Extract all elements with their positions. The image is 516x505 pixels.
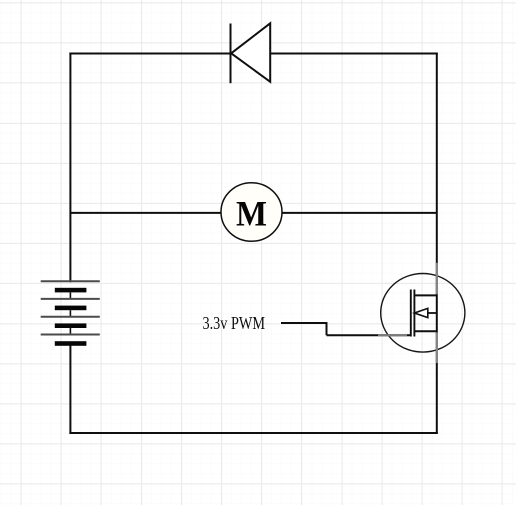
battery BT1 connector 2 — [69, 310, 71, 316]
wire left lower — [69, 346, 71, 433]
svg-text:3.3v PWM: 3.3v PWM — [203, 313, 266, 333]
battery BT1 plate short 2 — [55, 306, 87, 311]
wire PWM gate stub (gray) — [378, 334, 407, 336]
battery BT1 connector 3 — [69, 328, 71, 334]
wire bottom — [70, 432, 436, 434]
transistor Q1 source connector — [414, 330, 436, 332]
svg-text:M: M — [236, 194, 267, 234]
wire PWM horizontal upper — [281, 322, 328, 324]
transistor Q1 drain stub (gray) — [436, 263, 438, 294]
transistor Q1 source stub (gray) — [436, 332, 438, 363]
transistor Q1 gate bar left — [410, 290, 412, 337]
battery BT1 plate long 4 — [41, 334, 100, 336]
transistor Q1 drain connector — [414, 294, 436, 296]
motor M1 circle — [221, 183, 282, 241]
battery BT1 plate long 1 — [41, 280, 100, 282]
battery BT1 plate long 2 — [41, 298, 100, 300]
transistor Q1 body circle — [381, 274, 465, 353]
battery BT1 connector 1 — [69, 292, 71, 298]
battery BT1 plate short 4 — [55, 341, 87, 346]
battery BT1 plate short 1 — [55, 288, 87, 293]
wire right — [436, 54, 438, 434]
diode D1 cathode bar — [230, 24, 232, 84]
wire top — [70, 53, 436, 55]
diode D1 triangle — [231, 23, 270, 82]
transistor Q1 body arrow — [414, 308, 427, 317]
battery BT1 plate short 3 — [55, 323, 87, 328]
transistor Q1 gate bar right — [413, 290, 415, 337]
wire middle (motor branch) — [70, 212, 436, 214]
transistor Q1 body connector — [428, 312, 437, 314]
wire PWM horizontal lower (to gate) — [327, 334, 412, 336]
wire PWM step vertical — [326, 323, 328, 335]
wire left upper — [69, 54, 71, 282]
battery BT1 plate long 3 — [41, 316, 100, 318]
